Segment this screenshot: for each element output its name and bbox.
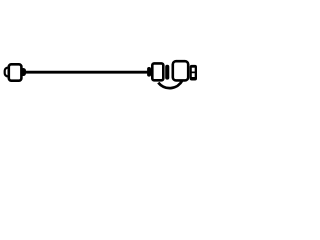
usb-a adapter body [173,61,188,80]
usb-a tip lower hole [192,73,195,77]
cable wire [25,71,148,74]
left connector tip [5,68,13,77]
left connector body [9,64,22,80]
right small plug neck [147,67,151,77]
tether loop arc [158,81,182,89]
right small plug tip [165,65,169,80]
usb-a metal tip [190,65,197,81]
right small plug body [152,63,163,80]
usb-a tip upper hole [192,68,195,72]
left connector nub [21,68,27,76]
